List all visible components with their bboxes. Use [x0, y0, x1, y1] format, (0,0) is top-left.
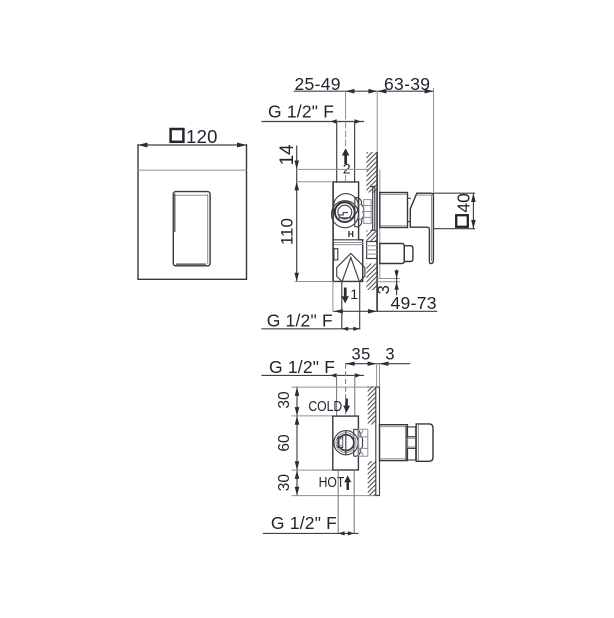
- body left edge redraw: [332, 182, 334, 282]
- valve body top view: [333, 416, 359, 470]
- inlet pipe 2: [337, 122, 355, 183]
- hot pipe edges: [338, 470, 354, 533]
- cartridge ring: [335, 202, 355, 222]
- wall hatch mid: [366, 231, 377, 242]
- outlet connection threads: [367, 242, 377, 259]
- svg-text:HOT: HOT: [319, 474, 345, 490]
- svg-text:G 1/2" F: G 1/2" F: [269, 357, 335, 377]
- plate bottom edge lines: [377, 279, 399, 282]
- svg-text:G 1/2" F: G 1/2" F: [268, 102, 334, 122]
- pipe 2 centerline: [345, 113, 347, 181]
- lever knob top view: [416, 424, 433, 461]
- plate handle front: [173, 192, 210, 266]
- flow arrow 1: [342, 287, 359, 303]
- nose through wall top view: [358, 429, 367, 456]
- svg-text:35: 35: [352, 346, 371, 364]
- dim line 49-73: [334, 309, 437, 314]
- svg-text:49-73: 49-73: [391, 293, 437, 313]
- extension line body top: [297, 181, 331, 183]
- extension ticks 30/60/30: [292, 387, 376, 496]
- trim plate side: [376, 387, 380, 495]
- dim vertical 30/60/30: [295, 387, 300, 496]
- lever stem: [408, 198, 411, 221]
- cartridge nose threads: [364, 200, 371, 224]
- lever arm top view: [406, 427, 416, 460]
- cartridge dome circle: [334, 194, 359, 219]
- cartridge lobes: [355, 198, 364, 227]
- HOT label: [319, 474, 352, 490]
- svg-text:3: 3: [385, 346, 394, 364]
- extension line 14 top: [297, 168, 368, 170]
- wall hatch upper: [366, 152, 377, 193]
- body step lines: [333, 240, 363, 245]
- svg-text:30: 30: [276, 474, 293, 492]
- dim line 120: [138, 143, 247, 148]
- svg-text:30: 30: [276, 391, 293, 409]
- dim 40 vertical line: [471, 193, 476, 229]
- extension body-left bottom: [332, 282, 334, 312]
- cartridge top lobes: [354, 429, 363, 456]
- svg-text:1: 1: [350, 287, 358, 303]
- cold pipe hidden edges: [337, 375, 355, 416]
- svg-text:G 1/2" F: G 1/2" F: [271, 513, 337, 533]
- svg-text:110: 110: [278, 218, 297, 245]
- COLD label: [308, 398, 350, 414]
- valve body side view: [333, 182, 363, 282]
- svg-text:14: 14: [277, 144, 298, 166]
- dim 3 vertical: [375, 270, 399, 295]
- dim vertical line 14/110: [294, 146, 299, 281]
- dim line G1/2 hot: [263, 531, 358, 535]
- dim line G1/2 top: [262, 119, 364, 124]
- dim square 40: [453, 193, 473, 227]
- cartridge stem detail: [338, 431, 346, 455]
- dim 40 extension lines: [433, 193, 474, 229]
- dim line 35/3: [346, 362, 410, 366]
- lever handle: [410, 193, 433, 263]
- outlet fitting: [380, 244, 413, 264]
- extension line body bottom: [295, 281, 337, 283]
- bore key detail: [339, 213, 351, 218]
- diverter tent: [337, 253, 365, 281]
- handle escutcheon side: [380, 193, 408, 228]
- cartridge outer circle: [332, 201, 359, 228]
- svg-text:COLD: COLD: [308, 398, 342, 414]
- cold pipe centerline: [345, 364, 347, 416]
- wall hatch top view upper: [368, 386, 376, 424]
- flow arrow 2: [342, 148, 351, 177]
- svg-text:60: 60: [276, 434, 293, 452]
- cartridge bore: [338, 205, 352, 219]
- svg-text:H: H: [348, 229, 354, 239]
- retaining ring at wall: [371, 187, 375, 231]
- svg-text:40: 40: [453, 193, 473, 213]
- svg-text:120: 120: [186, 126, 218, 147]
- extension lines 35/3: [377, 364, 380, 387]
- dim line G1/2 cold: [262, 373, 363, 378]
- cartridge circles top view: [334, 431, 358, 455]
- dim label square symbol 120: [171, 126, 218, 147]
- wall hatch lower: [366, 264, 377, 291]
- handle escutcheon top view: [380, 425, 408, 461]
- top dim line: [294, 89, 433, 94]
- svg-text:G 1/2" F: G 1/2" F: [267, 310, 333, 330]
- extension lines top dims: [346, 89, 434, 194]
- wall face line: [377, 152, 380, 311]
- wall hatch top view lower: [368, 461, 376, 495]
- small port left: [334, 249, 338, 260]
- outlet pipe 1: [342, 281, 360, 328]
- dim line G1/2 mid bottom: [262, 327, 360, 331]
- plate outline: [138, 145, 247, 279]
